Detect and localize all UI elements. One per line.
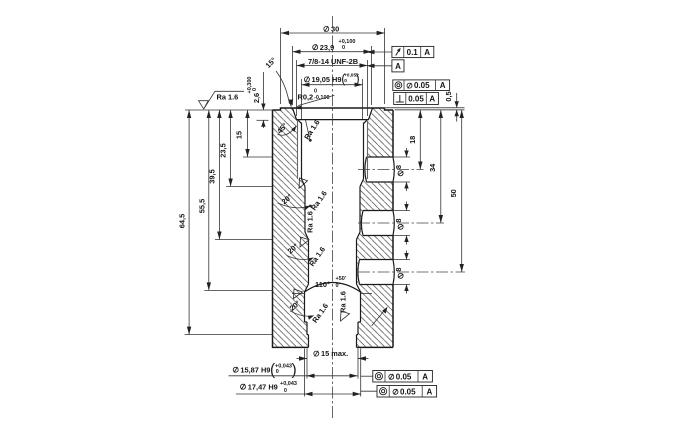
svg-text:15: 15 [235,131,244,139]
svg-text:0.05: 0.05 [414,81,430,90]
GD&T frame concentricity Ø0.05 A bottom 1 [373,371,433,383]
thread relief triangle 2 [300,237,309,247]
dimension Ø19,05 H9 (+0,052/0) [301,79,303,119]
svg-text:0: 0 [344,78,347,84]
triangle on cone left edge [294,289,303,299]
svg-text:A: A [424,48,430,57]
svg-text:17,47 H9: 17,47 H9 [248,382,278,391]
svg-text:A: A [422,372,428,381]
svg-text:7/8-14 UNF-2B: 7/8-14 UNF-2B [308,57,358,66]
svg-text:+0,052: +0,052 [344,73,359,79]
dimension 23,5 (left chain) [230,110,232,187]
bore taper step 2 [305,232,360,284]
svg-text:Ra 1.6: Ra 1.6 [306,211,315,233]
bore taper step 1 [302,179,364,232]
port 3 cutout Ø8 [358,260,395,284]
datum A frame [392,60,404,72]
svg-text:A: A [440,81,446,90]
svg-text:0: 0 [276,369,279,375]
port 2 centerline [358,222,444,224]
svg-text:Ra 1.6: Ra 1.6 [217,92,239,101]
svg-text:A: A [427,387,433,396]
svg-text:0,5: 0,5 [444,91,453,101]
thread relief triangle 1 [299,178,308,188]
dimension 34 (port depth) [440,110,442,223]
svg-text:8: 8 [394,267,403,271]
svg-text:A: A [429,95,435,104]
svg-text:0.05: 0.05 [400,387,416,396]
bottom mouth Ø15 walls [309,335,357,348]
top surface extension line left [185,109,273,111]
svg-text:0: 0 [342,45,345,51]
110° cone dome [305,283,361,293]
svg-text:30: 30 [331,25,339,34]
dimension Ø17,47 H9 +0,043/0 [241,384,246,390]
port 2 cutout Ø8 [362,211,395,235]
dimension 7/8-14 UNF-2B [296,60,298,116]
svg-text:110°: 110° [315,280,330,289]
svg-text:64,5: 64,5 [178,214,187,228]
svg-text:0.05: 0.05 [408,95,424,104]
right outer wall segments between ports [392,110,394,347]
bottom bore extension lines [304,349,306,397]
port 1 Ø8 dimension [394,156,411,158]
svg-text:+0,043: +0,043 [280,381,297,387]
svg-text:15,87 H9: 15,87 H9 [240,365,270,374]
svg-text:23,9: 23,9 [320,43,334,52]
dimension 64,5 (left chain) [188,110,190,335]
dimension Ø15,87 H9 (+0,043/0) [233,367,238,373]
svg-text:50: 50 [449,189,458,197]
svg-text:18: 18 [408,136,417,144]
part body right wall section (hatched) [357,108,394,347]
part body left wall section (hatched) [273,108,309,347]
dimension Ø30 [280,28,282,104]
GD&T frame perpendicularity 0.05 A [394,92,439,104]
port 1 cutout Ø8 [365,158,395,182]
bottom bore Ø17,47 walls [305,292,361,322]
svg-text:34: 34 [428,163,437,172]
svg-text:A: A [395,62,401,71]
svg-text:0.1: 0.1 [407,48,419,57]
svg-text:8: 8 [394,218,403,222]
svg-text:19,05 H9: 19,05 H9 [312,75,342,84]
svg-text:15 max.: 15 max. [321,349,348,358]
thread major thin lines 7/8-14 UNF [298,121,368,179]
leader arrow into right wall 110° cone [372,310,385,326]
dimension 18 (port depth) [419,110,421,170]
triangle below cone right [341,311,350,321]
dimension 50 (port depth) [461,110,463,272]
svg-text:2,6: 2,6 [252,93,261,103]
top surface extension lines right (0,5 step) [385,107,465,109]
svg-text:8: 8 [394,165,403,169]
thread minor bore lines Ø19,05 [302,123,364,180]
port 3 Ø8 dimension [394,259,411,261]
svg-text:Ra 1.6: Ra 1.6 [339,291,348,313]
GD&T frame circular runout 0.1 A [392,46,434,57]
svg-text:0: 0 [314,89,317,95]
port 3 centerline [358,271,465,273]
svg-text:+50': +50' [336,276,347,282]
dimension Ø15 max. [314,351,319,357]
GD&T frame concentricity Ø0.05 A bottom 2 [377,386,437,398]
dimension 39,5 (left chain) [218,110,220,240]
dimension Ø23,9 +0,100/0 [292,46,294,105]
bottom bore Ø15,87 walls [307,322,358,335]
dimension 55,5 (left chain) [208,110,210,290]
top recess Ø23,9 15° walls and seat [293,108,373,124]
svg-text:0': 0' [336,283,341,289]
svg-text:R0,2: R0,2 [298,92,314,101]
dimension 15 (left chain) [247,110,249,157]
bore flare to cone shoulder [305,284,361,292]
svg-text:55,5: 55,5 [197,199,206,213]
GD&T frame concentricity Ø0.05 A top [393,80,450,91]
part outer outline [273,108,394,347]
svg-text:0.05: 0.05 [396,372,412,381]
surface finish symbol Ra 1.6 top face [199,91,245,109]
main vertical centerline [332,16,334,420]
port 1 centerline [358,169,424,171]
svg-text:0: 0 [252,88,258,91]
port 2 Ø8 dimension [394,210,411,212]
cone edge extension lines [292,293,305,295]
svg-text:0: 0 [284,388,287,394]
